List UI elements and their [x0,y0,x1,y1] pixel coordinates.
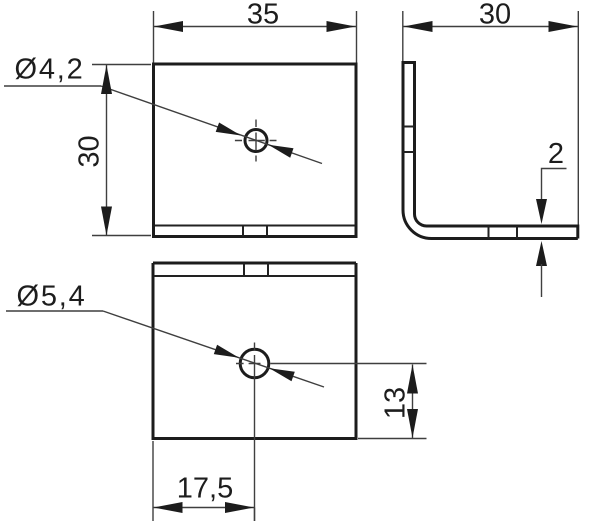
dimension 30 left: bottom arrowhead [101,207,112,236]
side view: bend ticks on bottom leg [489,226,518,239]
dimension 30 left: dim line [106,65,108,236]
dimension 30 top-right: extension lines [403,11,579,225]
svg-text:Ø4,2: Ø4,2 [15,54,85,86]
leader Ø4,2: arrowhead lower-right [268,145,293,158]
dimension 13: top arrowhead [407,365,418,394]
svg-text:17,5: 17,5 [177,473,233,505]
front view bottom flange: bend zone ticks [244,263,268,276]
front view top flange: bend zone ticks [243,226,267,237]
dimension 2: lower tail [541,264,543,297]
dimension 13: bottom arrowhead [407,409,418,438]
side view L profile: vertical leg [403,61,578,239]
svg-text:Ø5,4: Ø5,4 [17,281,87,313]
dimension 13: extension lines [358,438,427,440]
hole 4.2: centerlines [235,120,277,162]
svg-text:35: 35 [247,0,279,31]
leader Ø4,2: line [101,86,322,164]
label Ø5,4: underline [6,310,103,312]
dimension 2: upper arrowhead pointing down [536,199,547,224]
label Ø4,2: underline [4,85,101,87]
front view top flange: plate outline [154,11,357,238]
dimension 35: extension overshoots already drawn with plate; dim line [154,26,357,28]
front view bottom flange: plate outline [152,263,357,440]
side view L profile: bottom leg [427,225,578,239]
leader Ø5,4: arrowhead upper-left [214,345,239,358]
dimension 30 left: extension lines [92,65,151,236]
svg-text:30: 30 [479,0,511,31]
leader Ø5,4: line [103,311,324,387]
dimension 17,5: right arrowhead [225,502,254,513]
dimension 17,5: dim line [153,507,255,509]
dimension 30 top-right: left arrowhead [404,21,433,32]
dimension 17,5: extension lines [153,441,255,521]
leader Ø5,4: arrowhead lower-right [269,368,294,381]
side view L profile: bend arcs [403,210,432,239]
svg-text:30: 30 [74,135,106,167]
front view top flange: bend line [155,225,355,227]
side view: bend ticks on vertical leg [403,127,415,153]
front view bottom flange: bend line [154,275,355,277]
dimension 30 left: top arrowhead [101,65,112,94]
hole 4.2: circle [245,130,267,152]
dimension 35: left arrowhead [154,21,183,32]
dimension 30 top-right: right arrowhead [549,21,578,32]
dimension 35: right arrowhead [327,21,356,32]
dimension 17,5: left arrowhead [154,502,183,513]
svg-text:13: 13 [380,387,412,419]
dimension 13: dim line [412,365,414,439]
hole 5.4: circle [240,349,269,378]
svg-text:2: 2 [548,138,564,170]
leader Ø4,2: arrowhead upper-left [216,123,241,136]
hole 5.4: centerlines [236,343,427,522]
dimension 30 top-right: dim line [403,26,578,28]
dimension 2: lower arrowhead pointing up [536,241,547,266]
dimension 2: leader bend [542,169,567,203]
